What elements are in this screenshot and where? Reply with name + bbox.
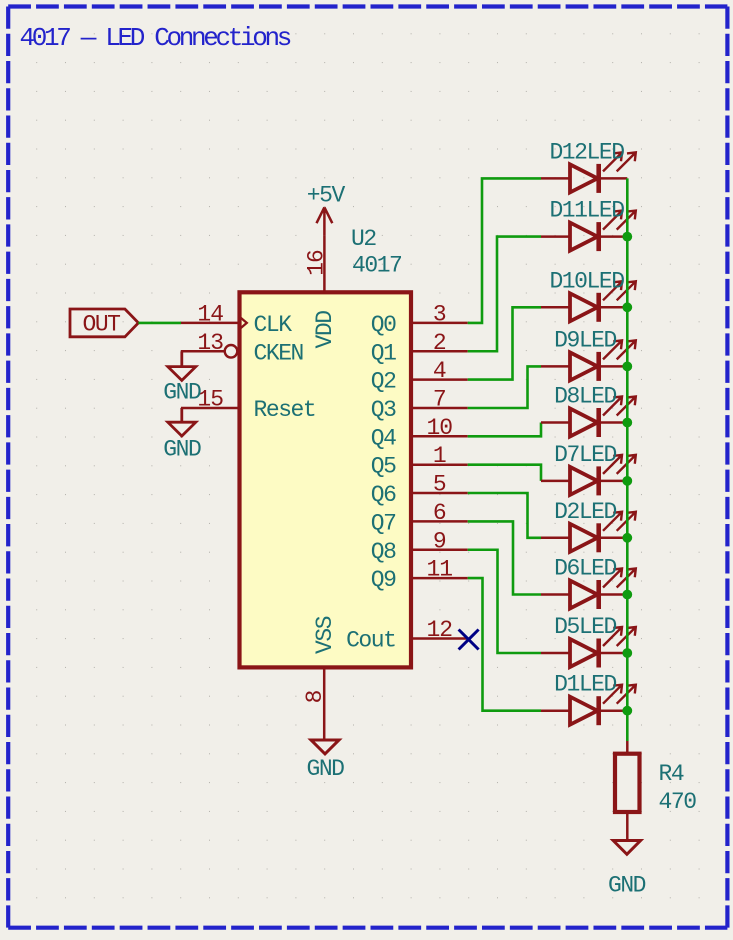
svg-text:GND: GND	[306, 756, 344, 782]
junction at D10LED cathode	[622, 302, 632, 312]
svg-text:D6LED: D6LED	[554, 556, 616, 582]
pin 14 CLK wire stub	[181, 322, 240, 325]
svg-text:7: 7	[433, 387, 446, 413]
svg-text:13: 13	[197, 330, 223, 356]
+5V power symbol	[317, 207, 333, 235]
svg-text:8: 8	[302, 690, 328, 703]
wire OUT to CLK	[138, 322, 181, 325]
svg-text:GND: GND	[608, 873, 646, 899]
svg-text:Cout: Cout	[346, 628, 395, 654]
pin stub Q2	[411, 378, 468, 381]
svg-text:GND: GND	[163, 437, 201, 463]
junction at D11LED cathode	[622, 232, 632, 242]
svg-text:2: 2	[433, 330, 446, 356]
svg-text:Q0: Q0	[371, 312, 396, 338]
ground symbol (CKEN pin 13)	[168, 351, 196, 380]
svg-text:Q6: Q6	[371, 482, 396, 508]
ground symbol (VSS pin 8)	[311, 740, 339, 754]
svg-text:D9LED: D9LED	[554, 327, 616, 353]
svg-text:D8LED: D8LED	[554, 384, 616, 410]
svg-text:4017 — LED Connections: 4017 — LED Connections	[20, 23, 291, 53]
svg-text:D2LED: D2LED	[554, 499, 616, 525]
junction at D7LED cathode	[622, 476, 632, 486]
svg-text:Q7: Q7	[371, 510, 396, 536]
LED D12LED	[541, 152, 636, 193]
wire Q0 to LED D12LED	[468, 178, 541, 323]
pin stub Q0	[411, 322, 468, 325]
wire Q5 to LED D7LED	[468, 465, 541, 481]
svg-text:VSS: VSS	[312, 616, 338, 654]
pin stub Q9	[411, 577, 468, 580]
CLK clock wedge	[240, 317, 247, 329]
pin 16 VDD stub	[323, 236, 326, 293]
svg-text:R4: R4	[659, 761, 684, 787]
junction at D8LED cathode	[622, 418, 632, 428]
svg-text:12: 12	[426, 617, 452, 643]
LED D10LED	[541, 281, 636, 322]
svg-text:D5LED: D5LED	[554, 614, 616, 640]
svg-text:D11LED: D11LED	[549, 198, 624, 224]
pin 8 VSS stub	[323, 667, 326, 740]
pin stub Q6	[411, 492, 468, 495]
svg-text:1: 1	[433, 443, 446, 469]
svg-text:16: 16	[304, 250, 330, 276]
wire Q9 to LED D1LED	[468, 578, 541, 711]
junction at D5LED cathode	[622, 648, 632, 658]
svg-text:Q9: Q9	[371, 567, 396, 593]
svg-text:14: 14	[197, 301, 223, 327]
svg-text:U2: U2	[351, 226, 376, 252]
LED D11LED	[541, 211, 636, 252]
svg-text:D1LED: D1LED	[554, 672, 616, 698]
svg-text:Q4: Q4	[371, 425, 396, 451]
wire Q1 to LED D11LED	[468, 237, 541, 352]
svg-text:4017: 4017	[352, 253, 401, 279]
pin stub Q8	[411, 549, 468, 552]
svg-text:Q3: Q3	[371, 397, 396, 423]
pin stub Q1	[411, 350, 468, 353]
net label OUT	[70, 309, 138, 337]
svg-text:D12LED: D12LED	[549, 139, 624, 165]
svg-text:CKEN: CKEN	[254, 340, 303, 366]
junction at D1LED cathode	[622, 706, 632, 716]
pin 12 Cout stub	[411, 637, 468, 640]
wire Q2 to LED D10LED	[468, 307, 541, 379]
wire Q3 to LED D9LED	[468, 366, 541, 408]
CKEN inversion circle	[225, 345, 238, 358]
no-connect X on Cout	[459, 630, 479, 650]
pin stub Q7	[411, 520, 468, 523]
wire Q8 to LED D5LED	[468, 550, 541, 653]
svg-text:OUT: OUT	[82, 312, 120, 338]
pin stub Q5	[411, 463, 468, 466]
svg-text:6: 6	[433, 500, 446, 526]
svg-text:5: 5	[433, 472, 446, 498]
LED D8LED	[541, 397, 636, 438]
svg-text:15: 15	[197, 387, 223, 413]
svg-text:Q1: Q1	[371, 340, 396, 366]
svg-text:+5V: +5V	[307, 183, 346, 209]
LED D5LED	[541, 627, 636, 668]
resistor R4	[615, 741, 640, 841]
svg-text:Q2: Q2	[371, 369, 396, 395]
svg-text:CLK: CLK	[254, 312, 293, 338]
LED D6LED	[541, 569, 636, 610]
svg-text:Q5: Q5	[371, 454, 396, 480]
svg-text:Q8: Q8	[371, 539, 396, 565]
ground symbol (Reset pin 15)	[168, 408, 196, 436]
svg-text:9: 9	[433, 528, 446, 554]
wire Q6 to LED D2LED	[468, 493, 541, 538]
svg-text:GND: GND	[163, 379, 201, 405]
svg-text:D10LED: D10LED	[549, 268, 624, 294]
svg-text:D7LED: D7LED	[554, 442, 616, 468]
pin 13 CKEN stub	[181, 350, 225, 353]
pin 15 Reset stub	[181, 407, 240, 410]
wire cathode bus	[626, 178, 629, 741]
junction at D2LED cathode	[622, 533, 632, 543]
svg-text:VDD: VDD	[312, 311, 338, 349]
junction at D9LED cathode	[622, 362, 632, 372]
svg-text:470: 470	[659, 789, 697, 815]
svg-text:Reset: Reset	[254, 397, 316, 423]
svg-text:11: 11	[426, 557, 452, 583]
svg-text:3: 3	[433, 301, 446, 327]
junction at D6LED cathode	[622, 590, 632, 600]
LED D7LED	[541, 455, 636, 496]
svg-text:10: 10	[426, 415, 452, 441]
LED D9LED	[541, 340, 636, 381]
LED D1LED	[541, 685, 636, 726]
pin stub Q3	[411, 407, 468, 410]
wire Q4 to LED D8LED	[468, 423, 541, 437]
wire Q7 to LED D6LED	[468, 521, 541, 594]
IC U2 body	[240, 292, 412, 667]
pin stub Q4	[411, 435, 468, 438]
svg-text:4: 4	[433, 358, 446, 384]
ground symbol (below R4)	[613, 841, 640, 855]
LED D2LED	[541, 512, 636, 553]
